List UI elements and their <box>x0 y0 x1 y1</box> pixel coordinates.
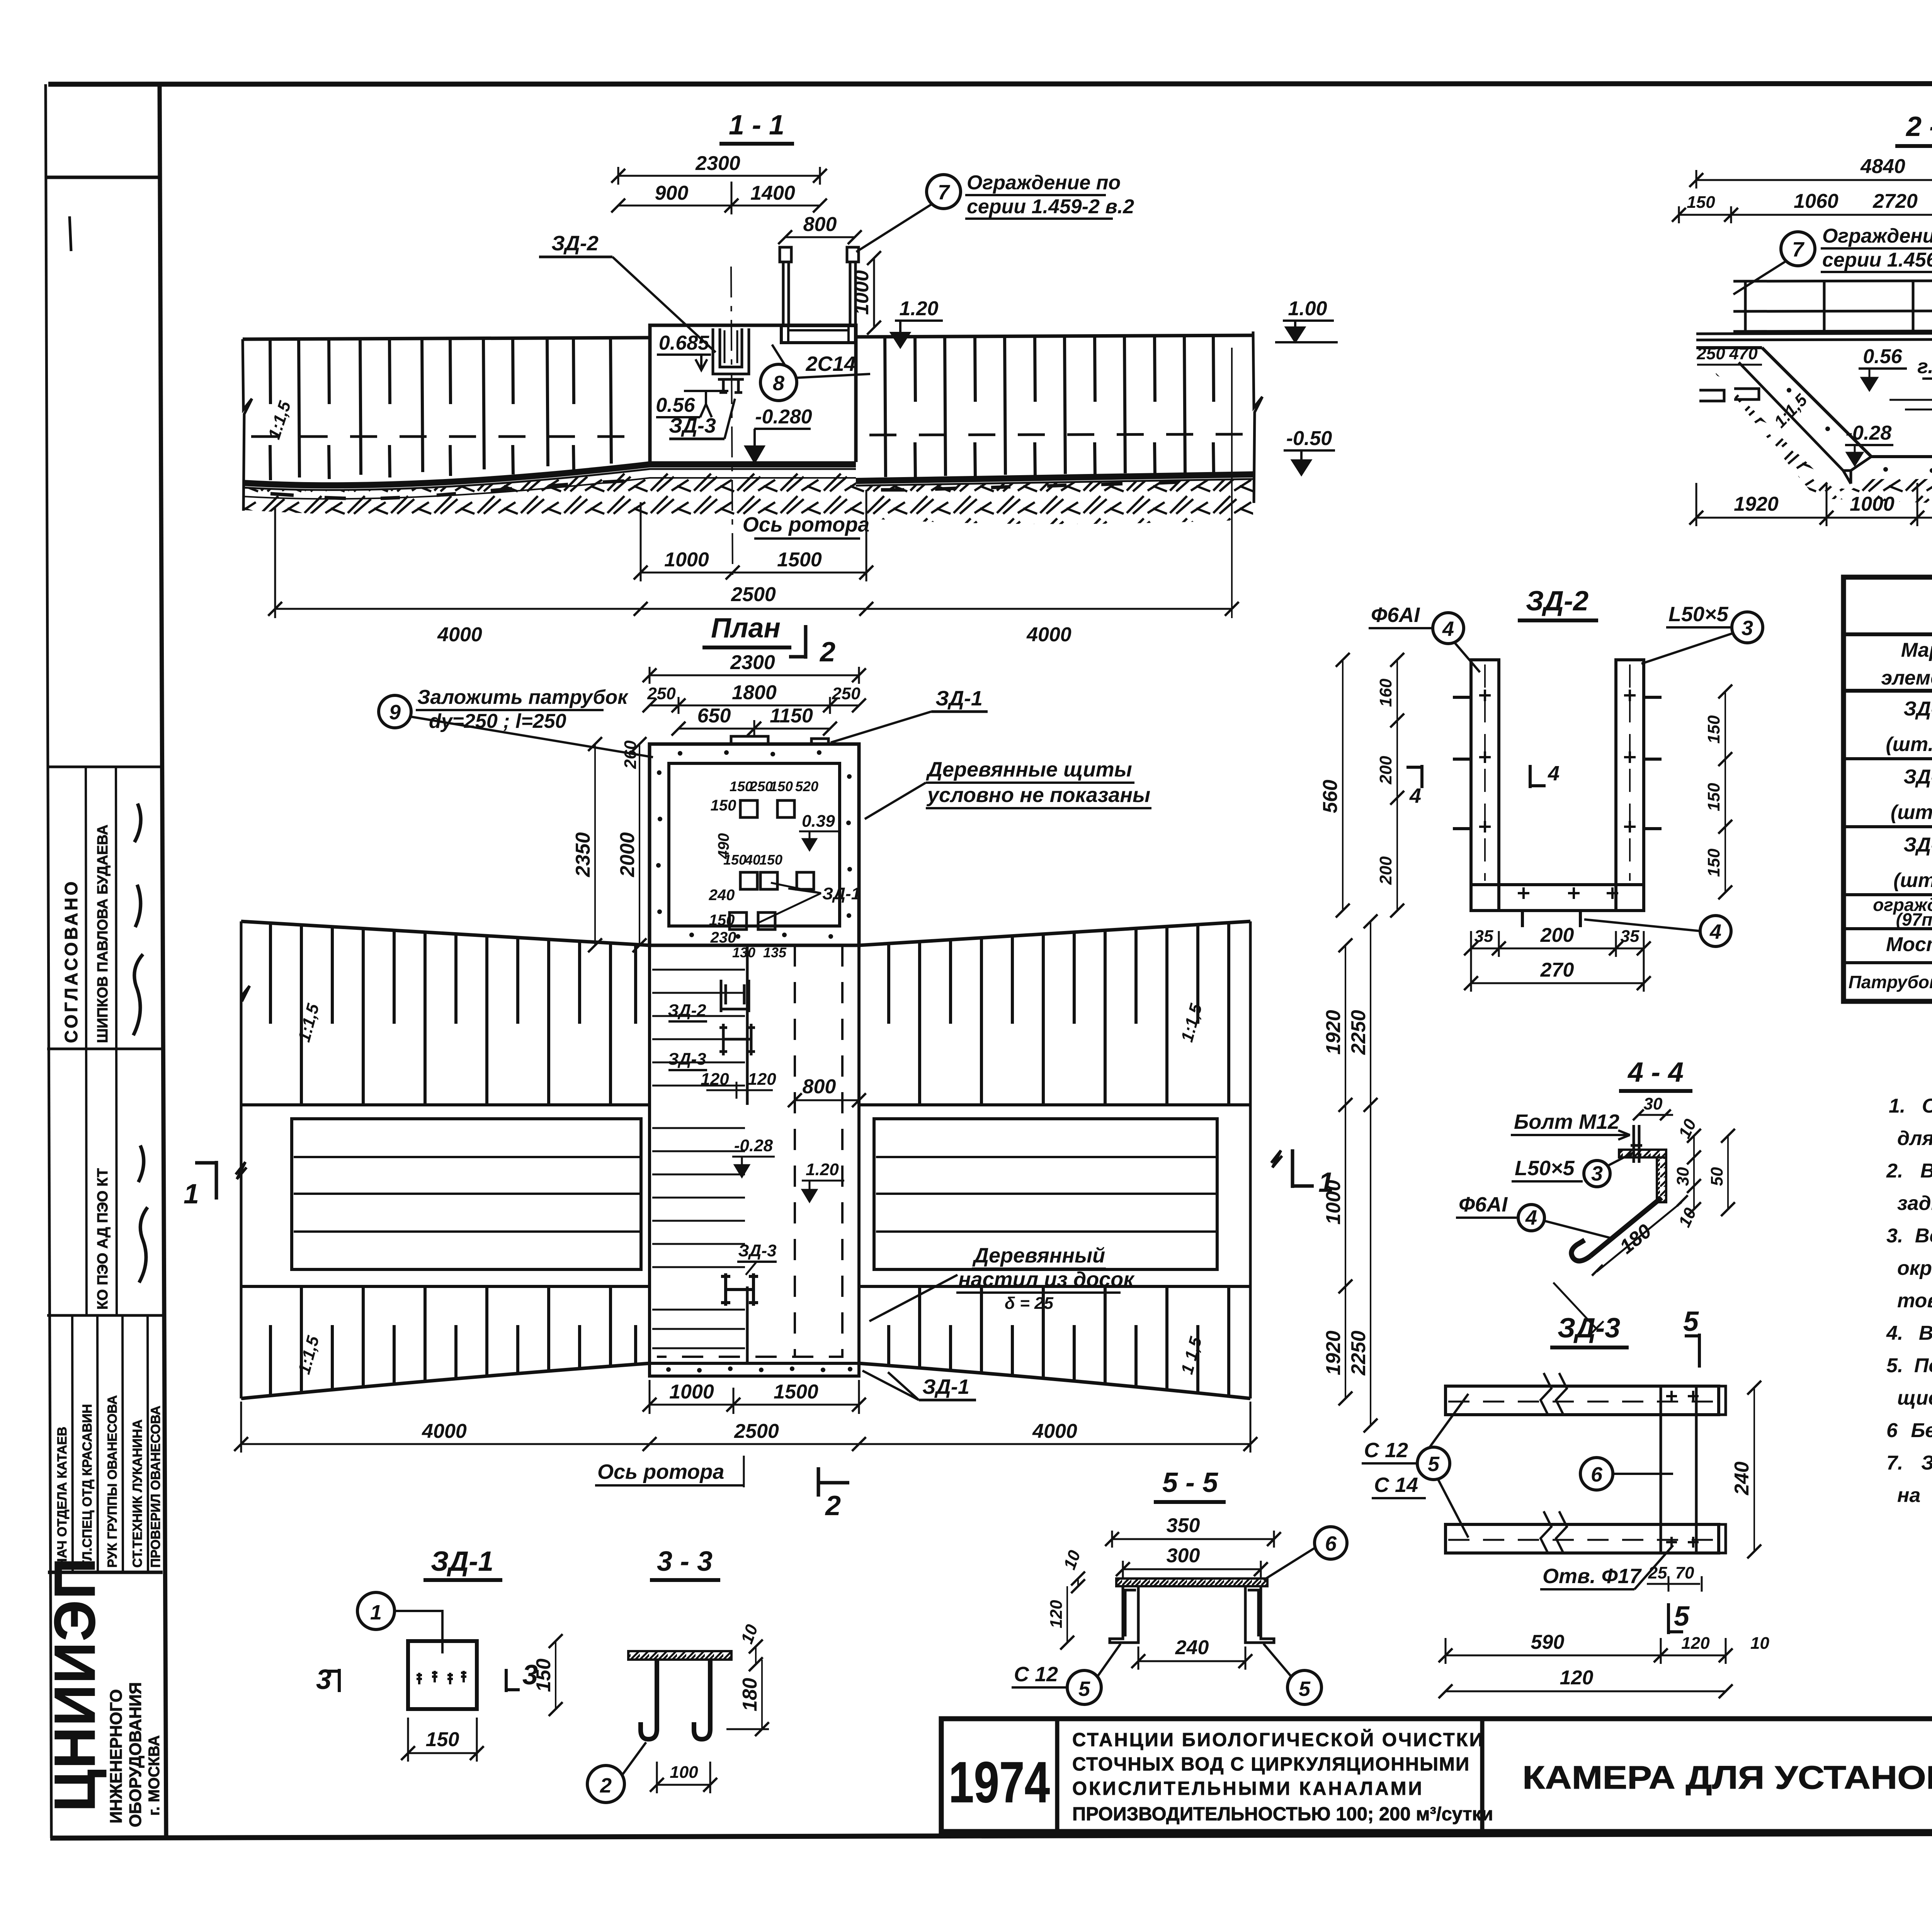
panel joints right band <box>885 336 1185 477</box>
svg-text:560: 560 <box>1319 780 1342 813</box>
svg-text:4 - 4: 4 - 4 <box>1627 1057 1684 1088</box>
svg-text:5: 5 <box>1299 1677 1311 1701</box>
svg-text:900: 900 <box>655 182 689 204</box>
right canal wall band top <box>856 335 1253 337</box>
panel half ticks right band <box>915 336 1214 402</box>
svg-text:Ограждение по: Ограждение по <box>1822 225 1932 247</box>
svg-text:2: 2 <box>819 637 835 668</box>
svg-text:200: 200 <box>1540 924 1574 946</box>
left band end edge <box>243 339 252 511</box>
lower band panel joints <box>301 1286 611 1393</box>
svg-text:настил из досок: настил из досок <box>958 1268 1135 1291</box>
dim 2300 plan <box>650 675 859 676</box>
upper band left end <box>241 921 250 1105</box>
left canal wall band top <box>243 338 650 339</box>
header texts <box>1881 632 1932 689</box>
svg-text:2350: 2350 <box>572 832 594 877</box>
svg-text:1000: 1000 <box>1322 1180 1345 1225</box>
svg-text:7. Закладную ЗД-1 выставить: 7. Закладную ЗД-1 выставить в одной плос… <box>1886 1452 1932 1474</box>
svg-text:200: 200 <box>1376 856 1395 885</box>
rebar hooks right bar <box>1644 697 1662 829</box>
svg-text:Патрубок dy=250: Патрубок dy=250 <box>1849 972 1932 992</box>
angle vertical flange hatched <box>1657 1157 1666 1202</box>
svg-text:(97п.м): (97п.м) <box>1896 909 1932 929</box>
svg-text:г.в.0.5: г.в.0.5 <box>1917 355 1932 378</box>
bolts crosses on bars <box>1479 690 1636 899</box>
svg-text:ЗД-3: ЗД-3 <box>738 1241 776 1260</box>
rebar hooks left bar <box>1453 697 1471 829</box>
table data <box>1849 698 1932 1001</box>
svg-text:ЗД-3: ЗД-3 <box>669 414 716 437</box>
svg-text:2: 2 <box>825 1490 841 1521</box>
lower band bottom edge <box>241 1363 1250 1398</box>
svg-text:0.39: 0.39 <box>802 812 835 831</box>
section mark 3 left <box>327 1669 339 1692</box>
ground right: speckle row <box>881 482 1179 490</box>
dim 900 1400 <box>618 205 820 207</box>
right dim chain 1920 2250 upper <box>1345 945 1346 1105</box>
ground left: bitumen layer <box>243 464 856 485</box>
svg-text:КАМЕРА ДЛЯ УСТАНОВКИ РОТОРА: КАМЕРА ДЛЯ УСТАНОВКИ РОТОРА <box>1522 1759 1932 1796</box>
svg-text:350: 350 <box>1167 1514 1200 1537</box>
top plate hatched <box>628 1651 731 1660</box>
svg-text:135: 135 <box>763 945 787 960</box>
ground left: concrete speckle band <box>243 478 856 499</box>
svg-text:35: 35 <box>1475 927 1493 946</box>
embedded bracket left <box>1699 389 1759 401</box>
railing post left <box>783 261 789 325</box>
svg-text:1 - 1: 1 - 1 <box>729 110 784 141</box>
dim 590 120 <box>1446 1655 1726 1657</box>
svg-text:150: 150 <box>723 852 747 868</box>
svg-text:1400: 1400 <box>750 182 795 204</box>
svg-text:2250: 2250 <box>1347 1330 1370 1376</box>
column planks upper <box>652 970 745 1086</box>
dim 120 bottom <box>1446 1691 1726 1692</box>
dim 150 bottom <box>408 1752 477 1754</box>
svg-text:1000: 1000 <box>664 549 709 571</box>
svg-text:(шт.2): (шт.2) <box>1893 869 1932 892</box>
svg-text:120: 120 <box>701 1070 729 1089</box>
dim 10 right <box>755 1646 757 1664</box>
svg-text:2500: 2500 <box>734 1420 779 1443</box>
water dashed line right <box>869 434 1248 435</box>
svg-text:2500: 2500 <box>731 583 776 606</box>
U frame right bar <box>1616 660 1644 911</box>
svg-text:Мостик: Мостик <box>1886 933 1932 956</box>
railing post right <box>850 261 855 325</box>
svg-text:4000: 4000 <box>422 1420 467 1443</box>
dim 240 right <box>1753 1388 1755 1551</box>
svg-text:Заложить патрубок: Заложить патрубок <box>417 686 629 709</box>
svg-text:1920: 1920 <box>1322 1330 1345 1375</box>
svg-text:ОКИСЛИТЕЛЬНЫМИ КАНАЛАМИ: ОКИСЛИТЕЛЬНЫМИ КАНАЛАМИ <box>1072 1778 1424 1799</box>
ЗД-3 bracket <box>718 379 744 392</box>
svg-text:ОБОРУДОВАНИЯ: ОБОРУДОВАНИЯ <box>126 1682 145 1827</box>
svg-text:ИНЖЕНЕРНОГО: ИНЖЕНЕРНОГО <box>107 1689 126 1823</box>
svg-text:4000: 4000 <box>1032 1420 1077 1443</box>
svg-text:0.56: 0.56 <box>1863 345 1902 368</box>
break marks <box>1541 1373 1567 1415</box>
approval block mid divider <box>47 1048 162 1050</box>
svg-text:на отм. 0.395 в полу.: на отм. 0.395 в полу. <box>1897 1484 1932 1507</box>
svg-text:4: 4 <box>1409 784 1421 807</box>
svg-text:4000: 4000 <box>437 624 482 646</box>
svg-text:1500: 1500 <box>774 1381 818 1403</box>
middle strip bottom edge <box>241 1285 1250 1288</box>
svg-text:dy=250 ; l=250: dy=250 ; l=250 <box>429 710 566 732</box>
svg-text:5: 5 <box>1078 1677 1090 1701</box>
svg-text:Ф6АI: Ф6АI <box>1371 603 1420 627</box>
chamber inner dims text <box>709 778 818 960</box>
svg-text:ПРОИЗВОДИТЕЛЬНОСТЬЮ 100; 200 м: ПРОИЗВОДИТЕЛЬНОСТЬЮ 100; 200 м³/сутки <box>1072 1804 1493 1825</box>
lower band half ticks <box>270 1325 636 1396</box>
title block outline <box>941 1719 1932 1832</box>
dim tier2: 150 1060 2720 1060 100 1000 250 <box>1679 214 1932 216</box>
upper band top edge <box>241 921 1250 945</box>
dim 4000 2500 4000 bottom <box>275 608 1232 610</box>
svg-text:ЗД-3: ЗД-3 <box>668 1050 706 1069</box>
svg-text:2250: 2250 <box>1347 1010 1370 1055</box>
svg-text:150: 150 <box>1704 848 1723 877</box>
svg-text:3 - 3: 3 - 3 <box>657 1546 713 1577</box>
patrubok notch <box>731 736 828 744</box>
soil hatch under canal s22 <box>1712 369 1932 503</box>
legs with hooks <box>641 1660 657 1739</box>
upper band bottom edge <box>241 1103 1250 1106</box>
svg-text:1: 1 <box>184 1179 199 1210</box>
table outline <box>1844 577 1932 1001</box>
svg-text:150: 150 <box>1704 715 1723 744</box>
circle 6 55 <box>1315 1527 1347 1559</box>
dim 100 bottom <box>657 1784 710 1786</box>
svg-text:1974: 1974 <box>949 1750 1050 1815</box>
callout circle 2 <box>587 1765 624 1803</box>
upper band half ticks <box>270 923 636 1024</box>
railing posts <box>1745 280 1932 331</box>
svg-text:1. Объем бетона М-150 на к: 1. Объем бетона М-150 на крепление откос… <box>1889 1095 1932 1117</box>
U frame left bar <box>1471 660 1499 911</box>
svg-text:СОГЛАСОВАНО: СОГЛАСОВАНО <box>61 879 81 1043</box>
plate square <box>408 1641 477 1709</box>
dim 2300 <box>618 175 820 177</box>
top plate hatched 55 <box>1116 1578 1267 1586</box>
svg-text:250: 250 <box>647 684 676 703</box>
dim 240 bottom <box>1138 1660 1245 1662</box>
svg-text:С 12: С 12 <box>1014 1663 1058 1686</box>
svg-text:С 14: С 14 <box>1374 1473 1418 1497</box>
canal lining concrete <box>1739 362 1871 484</box>
ground right: soil hatch <box>856 479 1253 524</box>
title row divider <box>1844 632 1932 636</box>
signatures divider <box>47 1314 162 1317</box>
svg-text:ЦНИИЭП: ЦНИИЭП <box>42 1557 107 1812</box>
water dashed line left <box>251 435 646 438</box>
circle 3 44 <box>1584 1160 1610 1187</box>
upper band right end <box>1249 921 1252 1105</box>
svg-text:470: 470 <box>1729 344 1758 363</box>
svg-text:2 - 2: 2 - 2 <box>1905 111 1932 142</box>
svg-text:серии 1.456-2 в.2: серии 1.456-2 в.2 <box>1822 249 1932 271</box>
svg-text:150: 150 <box>770 778 793 794</box>
svg-text:150: 150 <box>426 1728 459 1751</box>
svg-text:150: 150 <box>532 1658 555 1692</box>
svg-text:70: 70 <box>1675 1563 1694 1582</box>
left dim chain 560/160/200/200 <box>1342 660 1344 911</box>
sheet border top <box>48 83 1932 84</box>
svg-text:4: 4 <box>1442 617 1454 641</box>
svg-text:30: 30 <box>1644 1094 1663 1113</box>
svg-text:1800: 1800 <box>732 681 777 704</box>
rebar hooks bottom <box>1522 911 1580 927</box>
svg-text:Деревянные щиты: Деревянные щиты <box>926 758 1132 781</box>
svg-text:(шт. 1): (шт. 1) <box>1891 801 1932 824</box>
bottom dim 4000 2500 4000 plan <box>241 1443 1250 1445</box>
bottom dims 35 200 35 / 270 <box>1471 948 1644 950</box>
dim 1000 vertical <box>873 258 875 328</box>
svg-text:1500: 1500 <box>777 549 822 571</box>
wall speckles plan <box>656 750 852 939</box>
right dim chain 150x3 <box>1725 692 1726 892</box>
svg-text:Ось ротора: Ось ротора <box>597 1460 724 1483</box>
svg-text:520: 520 <box>795 778 818 794</box>
svg-text:2С14: 2С14 <box>805 352 855 376</box>
svg-text:30: 30 <box>1673 1167 1692 1186</box>
svg-text:ГЛ.СПЕЦ ОТД КРАСАВИН: ГЛ.СПЕЦ ОТД КРАСАВИН <box>80 1404 95 1568</box>
C12 legs hatched <box>1110 1586 1138 1643</box>
dim 150 right rot <box>555 1641 556 1709</box>
svg-text:ЗД-2: ЗД-2 <box>551 232 599 255</box>
svg-text:1.00: 1.00 <box>1288 297 1327 320</box>
sheet border outer-left <box>46 84 51 1838</box>
dim 800 railing <box>785 236 855 238</box>
svg-text:4: 4 <box>1548 762 1560 785</box>
svg-text:1920: 1920 <box>1322 1010 1345 1055</box>
svg-text:800: 800 <box>803 213 837 236</box>
column bottom sill <box>650 1363 859 1376</box>
section mark 1 right <box>1293 1149 1314 1188</box>
svg-text:-0.50: -0.50 <box>1286 427 1332 450</box>
main field left border <box>160 84 166 1836</box>
svg-text:3: 3 <box>1742 617 1753 640</box>
svg-text:щиеся с грунтом , обмазать г: щиеся с грунтом , обмазать горячим битум… <box>1897 1387 1932 1409</box>
svg-text:серии 1.459-2 в.2: серии 1.459-2 в.2 <box>967 195 1134 218</box>
svg-text:240: 240 <box>1731 1461 1753 1495</box>
sheet border bottom <box>50 1832 1932 1838</box>
svg-text:Ф6АI: Ф6АI <box>1459 1193 1508 1216</box>
svg-text:250: 250 <box>1696 344 1725 363</box>
dim 350 <box>1112 1538 1274 1540</box>
svg-text:4: 4 <box>1525 1206 1537 1229</box>
bolt crosses zd3 <box>1666 1391 1699 1548</box>
C12 bottom channel <box>1446 1524 1719 1553</box>
header bottom divider <box>1844 689 1932 693</box>
svg-text:ПРОВЕРИЛ ОВАНЕСОВА: ПРОВЕРИЛ ОВАНЕСОВА <box>148 1406 163 1568</box>
role/name rows grid <box>72 1315 73 1572</box>
svg-text:δ = 25: δ = 25 <box>1005 1294 1053 1313</box>
column dashed hidden lines <box>794 945 796 1357</box>
svg-text:10: 10 <box>1750 1634 1769 1653</box>
svg-text:50: 50 <box>1708 1167 1726 1186</box>
right dim chain 1920 2250 lower <box>1345 1286 1346 1398</box>
svg-text:2300: 2300 <box>695 152 740 175</box>
svg-text:3. Все металлоконструкции , с: 3. Все металлоконструкции , соприкасающи… <box>1886 1225 1932 1247</box>
section mark 3 right <box>506 1669 520 1692</box>
ground line left <box>1696 346 1762 349</box>
dim 250 1800 250 <box>650 705 859 707</box>
rebar marks inside plate <box>417 1671 466 1684</box>
canal trapezoid slopes <box>1762 335 1932 457</box>
svg-text:1.20: 1.20 <box>806 1160 839 1179</box>
bridge planks left <box>292 1119 641 1269</box>
svg-text:1.20: 1.20 <box>899 297 938 320</box>
right dims 10 30 50 10 <box>1693 1136 1695 1209</box>
dim 10 left rot <box>1077 1578 1079 1586</box>
middle strip left end <box>240 1105 243 1286</box>
svg-text:1150: 1150 <box>770 705 813 727</box>
svg-text:35: 35 <box>1621 927 1639 946</box>
callout circle 7 s22 <box>1781 232 1815 266</box>
svg-text:800: 800 <box>803 1076 836 1098</box>
svg-text:3: 3 <box>1591 1162 1603 1185</box>
svg-text:650: 650 <box>697 705 731 727</box>
section mark 2 top <box>789 625 806 659</box>
svg-text:590: 590 <box>1531 1631 1565 1653</box>
approval block top divider <box>47 766 162 768</box>
callout circle 1 <box>357 1592 395 1629</box>
svg-text:-0.280: -0.280 <box>755 406 812 428</box>
svg-text:ЗД-1: ЗД-1 <box>1903 698 1932 720</box>
svg-text:ЗД-2: ЗД-2 <box>1526 586 1588 617</box>
svg-text:Деревянный: Деревянный <box>972 1244 1105 1267</box>
svg-text:120: 120 <box>748 1070 776 1089</box>
svg-text:условно не показаны: условно не показаны <box>926 783 1150 807</box>
svg-text:240: 240 <box>709 887 735 904</box>
svg-text:250: 250 <box>749 778 773 794</box>
svg-text:L50×5: L50×5 <box>1668 603 1729 626</box>
rotor chamber outline <box>650 325 856 462</box>
svg-text:5. Поверхности камеры и бет: 5. Поверхности камеры и бетонных массиво… <box>1886 1354 1932 1377</box>
svg-text:1920: 1920 <box>1734 493 1779 515</box>
panel joints left band <box>299 338 611 477</box>
svg-text:8: 8 <box>773 372 784 395</box>
section mark 2 bottom <box>818 1467 849 1497</box>
svg-text:2000: 2000 <box>616 832 639 877</box>
svg-text:4000: 4000 <box>1026 624 1071 646</box>
section mark 5 bottom <box>1668 1603 1683 1634</box>
svg-text:5 - 5: 5 - 5 <box>1162 1467 1218 1498</box>
year box divider <box>1055 1719 1060 1832</box>
svg-text:120: 120 <box>1681 1634 1710 1653</box>
svg-text:7: 7 <box>1792 238 1805 261</box>
svg-text:100: 100 <box>670 1763 698 1782</box>
svg-text:200: 200 <box>1376 756 1395 785</box>
column planks mid <box>652 1128 745 1267</box>
svg-text:5: 5 <box>1428 1453 1440 1476</box>
svg-text:СТАНЦИИ БИОЛОГИЧЕСКОЙ ОЧИСТКИ: СТАНЦИИ БИОЛОГИЧЕСКОЙ ОЧИСТКИ <box>1072 1729 1485 1750</box>
right dim 1000 middle <box>1345 1105 1346 1286</box>
svg-text:6: 6 <box>1591 1463 1603 1486</box>
ground left: soil hatch <box>243 469 856 518</box>
svg-text:150: 150 <box>1687 193 1715 212</box>
section marks 4 inside <box>1406 765 1422 788</box>
svg-text:150: 150 <box>709 912 735 929</box>
svg-text:2: 2 <box>600 1774 612 1797</box>
U frame bottom bar <box>1471 885 1644 911</box>
svg-text:ЗД-2: ЗД-2 <box>1903 766 1932 788</box>
top small box divider <box>46 176 160 179</box>
svg-text:7: 7 <box>938 181 951 204</box>
ЗД-2 symbol in plan <box>721 980 749 1012</box>
svg-text:Марка: Марка <box>1901 639 1932 661</box>
svg-text:-0.28: -0.28 <box>734 1136 773 1155</box>
section mark 5 top <box>1685 1334 1699 1368</box>
circle 4 bottom right <box>1700 916 1731 946</box>
svg-text:2720: 2720 <box>1872 190 1918 212</box>
svg-text:товке ХС 010 или ХСГ-26 за: товке ХС 010 или ХСГ-26 за 2 раза <box>1897 1290 1932 1312</box>
svg-text:260: 260 <box>621 740 640 769</box>
dim 300 <box>1123 1568 1261 1570</box>
ЗД-3 symbol plan upper <box>719 1024 755 1055</box>
svg-text:5: 5 <box>1674 1601 1690 1632</box>
callout circle 9 <box>379 695 411 728</box>
svg-text:СТОЧНЫХ ВОД С ЦИРКУЛЯЦИОННЫМИ: СТОЧНЫХ ВОД С ЦИРКУЛЯЦИОННЫМИ <box>1072 1754 1470 1775</box>
row dividers full <box>1844 759 1932 963</box>
svg-text:L50×5: L50×5 <box>1515 1157 1575 1180</box>
ground right: bitumen layer <box>856 474 1253 481</box>
panel bottom ticks right band <box>915 442 1214 479</box>
central column right wall <box>857 945 861 1376</box>
central column left wall <box>648 945 651 1376</box>
svg-text:160: 160 <box>1376 678 1395 707</box>
svg-text:Болт М12: Болт М12 <box>1514 1110 1619 1133</box>
callout circle 8 <box>760 364 797 401</box>
upper band panel joints <box>301 925 611 1105</box>
svg-text:ЗД-1: ЗД-1 <box>431 1546 493 1577</box>
svg-text:5: 5 <box>1683 1306 1699 1337</box>
svg-text:элемента: элемента <box>1881 667 1932 689</box>
svg-text:окрашиваются лаком ХСЛ или: окрашиваются лаком ХСЛ или ХС-76 за 3 ра… <box>1897 1257 1932 1279</box>
svg-text:270: 270 <box>1540 959 1574 981</box>
dim 180 diagonal <box>1597 1202 1682 1272</box>
section mark 1 left <box>195 1161 216 1200</box>
angle horizontal flange hatched <box>1619 1150 1666 1157</box>
svg-text:ЗД-1: ЗД-1 <box>922 1375 969 1398</box>
svg-text:С 12: С 12 <box>1364 1439 1408 1462</box>
dim 120 left rot <box>1066 1586 1068 1643</box>
ЗД-2 channel pocket <box>713 328 749 374</box>
svg-text:ЗД-3: ЗД-3 <box>1903 834 1932 856</box>
panel half ticks left band <box>270 338 574 404</box>
dim 650 1150 <box>679 728 830 730</box>
svg-text:40: 40 <box>745 852 760 868</box>
svg-text:120: 120 <box>1047 1600 1066 1628</box>
svg-text:240: 240 <box>1175 1636 1209 1659</box>
circle 5 right 55 <box>1287 1670 1321 1704</box>
speckles in concrete s22 <box>1787 353 1932 473</box>
svg-text:задней стенки камеры: задней стенки камеры <box>1897 1192 1932 1215</box>
ЗД-3 symbol plan lower <box>721 1273 758 1306</box>
anchor plates in chamber <box>740 800 757 817</box>
bottom dims 1920 1000 1920 <box>1696 517 1932 519</box>
svg-text:1: 1 <box>370 1601 382 1624</box>
end plates far right <box>1719 1386 1726 1553</box>
circle 6 zd3 <box>1580 1458 1613 1490</box>
railing rails <box>1733 280 1932 331</box>
svg-text:2. В полу камеры создать ук: 2. В полу камеры создать уклон намазкой … <box>1886 1160 1932 1182</box>
мостик C14 beam <box>781 326 855 343</box>
svg-text:230: 230 <box>710 929 736 946</box>
